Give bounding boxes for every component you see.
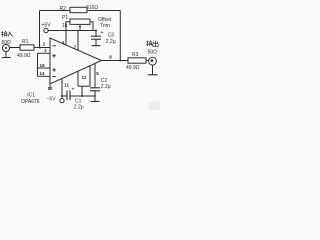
svg-text:Trim: Trim	[100, 23, 110, 29]
pot wiper arrow	[79, 25, 81, 31]
potentiometer P1 body	[70, 19, 90, 24]
svg-text:2.2μ: 2.2μ	[106, 39, 116, 45]
node C1/pin12 riser	[81, 95, 83, 97]
capacitor C2	[90, 88, 100, 102]
wire pot right lead	[90, 22, 93, 31]
svg-text:2.2μ: 2.2μ	[101, 84, 111, 90]
svg-text:R1: R1	[22, 39, 29, 45]
resistor R3	[128, 58, 146, 63]
resistor R2	[70, 7, 87, 12]
svg-text:P1: P1	[62, 15, 68, 21]
node rail/C3	[95, 30, 97, 32]
node rail/pin4	[65, 30, 67, 32]
wire pin 3	[38, 52, 51, 54]
output connector J2	[149, 57, 157, 65]
wire feedback riser	[39, 11, 41, 48]
Offset Trim label	[98, 17, 112, 29]
svg-text:+: +	[101, 30, 104, 35]
node pin16 junction	[37, 67, 39, 69]
svg-text:+: +	[72, 87, 75, 92]
capacitor C3	[91, 31, 101, 46]
ground (C2)	[91, 101, 100, 103]
op-amp U1 triangle	[50, 38, 102, 84]
svg-text:50Ω: 50Ω	[148, 50, 158, 56]
wire pin 7 drop	[77, 31, 79, 51]
wire pin12 riser	[81, 86, 83, 96]
svg-text:−5V: −5V	[47, 97, 57, 103]
wire pin 14	[38, 75, 51, 77]
-5V terminal	[60, 99, 64, 103]
node rail/pin7	[77, 30, 79, 32]
svg-text:R2: R2	[60, 6, 67, 12]
wire R3 to output connector	[146, 60, 149, 62]
wire +5V rail	[48, 30, 96, 32]
ground (C3)	[92, 45, 101, 47]
pin 14 minus sign	[52, 76, 55, 78]
wire R1 to inverting input	[34, 47, 50, 49]
ground (output)	[148, 65, 158, 75]
label 输入 (input)	[1, 31, 12, 36]
wire pin 11 drop	[61, 79, 63, 99]
pin 10 stub	[49, 84, 51, 90]
svg-text:11: 11	[64, 83, 69, 88]
pin 3 noninverting sign	[52, 54, 55, 57]
svg-text:2.2μ: 2.2μ	[74, 105, 84, 110]
wire R2 to feedback drop	[87, 10, 120, 12]
svg-text:16: 16	[40, 63, 46, 68]
svg-text:IC1: IC1	[27, 93, 35, 99]
wire -5V rail left	[62, 95, 67, 97]
svg-text:49.9Ω: 49.9Ω	[126, 65, 140, 71]
svg-text:+5V: +5V	[42, 23, 52, 29]
wire pin 16	[38, 67, 51, 69]
wire pin 4 drop	[65, 31, 67, 46]
svg-text:1k: 1k	[62, 23, 68, 29]
svg-text:14: 14	[40, 71, 46, 76]
wire output	[102, 60, 129, 62]
wire input to R1	[9, 47, 20, 49]
node A junction	[39, 47, 41, 49]
capacitor C1	[67, 91, 70, 101]
svg-text:10: 10	[48, 86, 54, 91]
wire pot left lead	[66, 22, 70, 31]
ground (input)	[2, 51, 11, 57]
wire pin 5 drop	[94, 64, 96, 88]
svg-text:OPA676: OPA676	[21, 99, 40, 105]
+5V terminal	[44, 28, 48, 32]
wire feedback drop	[119, 11, 121, 61]
wire -5V rail right	[70, 95, 95, 97]
svg-text:50Ω: 50Ω	[2, 40, 12, 46]
svg-text:316Ω: 316Ω	[86, 5, 98, 11]
node C2/rail junction	[94, 95, 96, 97]
svg-text:C3: C3	[108, 33, 115, 39]
node -5V junction	[61, 95, 63, 97]
label 输出 (output)	[146, 41, 158, 47]
wire pin12 rail	[78, 85, 90, 87]
wire pin 12 drop	[77, 71, 79, 86]
svg-text:R3: R3	[132, 52, 139, 58]
wire to R2	[40, 10, 71, 12]
page smudge	[148, 101, 162, 111]
pin 16 plus sign	[52, 68, 55, 71]
svg-text:49.9Ω: 49.9Ω	[17, 53, 31, 59]
wire pin12 box right	[89, 66, 91, 86]
svg-text:12: 12	[82, 75, 88, 80]
resistor R1	[20, 45, 34, 50]
inverting input sign	[52, 45, 55, 47]
input connector J1	[3, 45, 10, 52]
wire aux input feeder	[37, 53, 39, 76]
node output junction	[119, 60, 121, 62]
